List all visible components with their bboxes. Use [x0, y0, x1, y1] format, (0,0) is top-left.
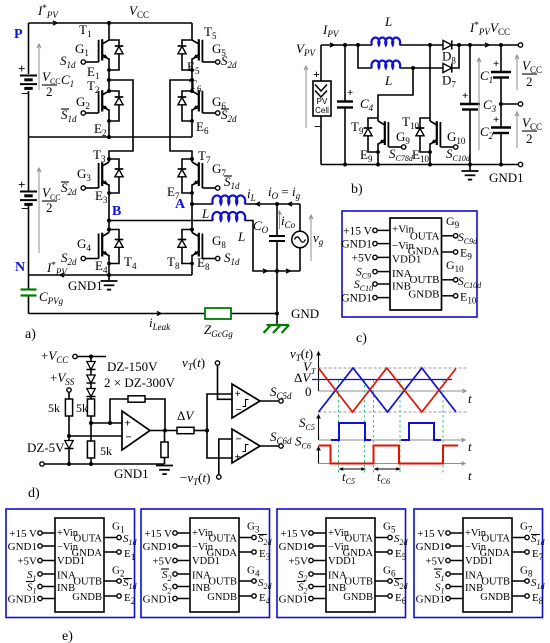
wire: T6 emitter to midpoint — [191, 121, 193, 137]
svg-text:OUTB: OUTB — [344, 577, 373, 588]
svg-text:tC6: tC6 — [377, 469, 390, 486]
svg-text:SC5: SC5 — [299, 415, 315, 432]
capacitor C4 — [337, 45, 374, 165]
svg-text:T5: T5 — [204, 24, 217, 41]
pin INB e-2 — [162, 582, 190, 596]
gate label G8/S1d — [212, 233, 240, 267]
svg-text:+15 V: +15 V — [343, 226, 373, 238]
pin +15V e-1 — [9, 528, 55, 540]
svg-text:S2d: S2d — [394, 577, 409, 591]
pin +5V e-3 — [288, 556, 326, 568]
svg-text:iL: iL — [247, 186, 256, 203]
svg-text:S1d: S1d — [60, 53, 76, 70]
svg-text:−: − — [236, 434, 242, 446]
pin GNDB e-2 — [239, 592, 271, 606]
svg-text:SC6d: SC6d — [270, 429, 292, 446]
wire: bypass E1 to T3 collector — [109, 80, 133, 159]
svg-text:GND1: GND1 — [341, 293, 372, 305]
svg-text:GNDA: GNDA — [480, 548, 511, 559]
svg-text:GND1: GND1 — [341, 239, 372, 251]
svg-text:2 × DZ-300V: 2 × DZ-300V — [104, 375, 175, 390]
label E3 — [95, 188, 108, 205]
gate label G2/S1d-bar — [61, 94, 90, 124]
svg-text:+: + — [18, 177, 25, 192]
pin INB e-4 — [435, 582, 463, 596]
wire: bridge bottom rail — [29, 273, 193, 277]
svg-text:SC10: SC10 — [354, 279, 373, 293]
output SC6d — [260, 429, 292, 448]
svg-text:GND1: GND1 — [143, 541, 172, 553]
label VT — [303, 359, 316, 376]
wire: -vT to comparator2 — [219, 439, 232, 475]
resistor 5k chain — [76, 399, 95, 423]
svg-text:Cell: Cell — [315, 106, 329, 115]
label 0 — [305, 384, 312, 399]
svg-text:T10: T10 — [402, 114, 419, 131]
svg-text:IPV: IPV — [322, 22, 340, 39]
transistor T1 — [79, 22, 123, 72]
svg-text:+5V: +5V — [17, 556, 37, 568]
PV cell — [313, 45, 331, 165]
dashed level -VT — [319, 411, 468, 413]
label E9 — [360, 147, 373, 164]
pin INB e-1 — [26, 582, 55, 596]
wire: bypass E5 to T7 collector — [170, 80, 192, 159]
label c) — [356, 331, 367, 346]
pin INA e-2 — [161, 569, 190, 583]
svg-text:S1d: S1d — [531, 533, 546, 547]
svg-text:S1d: S1d — [224, 250, 240, 267]
wire: d bottom rail — [40, 462, 165, 466]
pin OUTB e-1 — [104, 565, 138, 592]
svg-text:VCC: VCC — [522, 58, 542, 75]
svg-text:OUTA: OUTA — [410, 231, 440, 243]
svg-text:G10: G10 — [447, 129, 466, 146]
svg-text:GND1: GND1 — [489, 170, 524, 185]
wire: T3 emitter to node B — [108, 193, 110, 221]
label E5 — [187, 59, 200, 76]
pin GND1 e-4 — [416, 541, 463, 553]
pin INB e-3 — [297, 582, 326, 596]
svg-text:E8: E8 — [197, 255, 210, 272]
wire: DC midpoint rail — [29, 135, 193, 139]
wire: leakage path — [29, 312, 278, 316]
pin +15V e-2 — [144, 528, 190, 540]
node output top — [275, 202, 279, 206]
label VPV — [296, 41, 316, 128]
pulldown resistor — [161, 431, 168, 465]
wire: dV node to comparator2 — [207, 431, 232, 459]
svg-text:+15 V: +15 V — [9, 528, 37, 540]
svg-text:I*PV: I*PV — [469, 20, 491, 37]
svg-text:E9: E9 — [360, 147, 373, 164]
svg-text:+: + — [313, 67, 320, 81]
voltage arrow upper — [37, 44, 41, 90]
driver box e-3 — [277, 509, 406, 618]
wire: minus input — [69, 435, 122, 437]
svg-text:GNDA: GNDA — [72, 548, 103, 559]
svg-text:VCC: VCC — [522, 115, 542, 132]
svg-text:2: 2 — [526, 131, 533, 146]
svg-text:GNDA: GNDA — [343, 548, 374, 559]
transistor T5 — [178, 24, 220, 72]
label d) — [28, 486, 40, 501]
label t axis2 — [468, 439, 472, 454]
node VCC midpoint — [499, 102, 523, 106]
svg-text:E5: E5 — [187, 59, 200, 76]
gate label G5/S2d — [212, 41, 237, 70]
driver IC e-4 — [463, 518, 512, 612]
svg-text:S2d: S2d — [394, 533, 409, 547]
resistor 5k vss — [48, 399, 73, 438]
svg-text:e): e) — [62, 629, 73, 643]
pin +5V e-2 — [152, 556, 190, 568]
driver box e-4 — [414, 509, 543, 618]
pin GND1b e-4 — [416, 594, 463, 606]
wire: T2 emitter to midpoint — [108, 121, 110, 137]
svg-text:+15 V: +15 V — [417, 528, 445, 540]
transistor T2 — [81, 78, 123, 123]
svg-text:+: + — [462, 90, 468, 102]
svg-text:+15 V: +15 V — [280, 528, 308, 540]
label dV chart — [294, 370, 312, 385]
svg-text:tC5: tC5 — [342, 469, 355, 486]
gate label G4/S2d — [61, 236, 91, 267]
pin GNDB e-4 — [512, 592, 544, 606]
svg-text:GND1: GND1 — [8, 594, 37, 606]
pin OUTB e-4 — [512, 565, 546, 592]
node N — [15, 260, 25, 275]
wire: T10 collector riser — [429, 45, 431, 118]
driver IC U-c — [390, 218, 442, 310]
svg-text:VCC: VCC — [129, 3, 149, 20]
node A — [175, 197, 194, 212]
node P — [14, 27, 23, 42]
svg-text:5k: 5k — [100, 444, 112, 458]
svg-text:G9: G9 — [446, 214, 460, 230]
svg-text:SC10d: SC10d — [446, 146, 471, 163]
svg-text:GND1: GND1 — [68, 278, 103, 293]
label vT(t) chart — [290, 346, 313, 363]
pin +5V c — [351, 252, 390, 264]
driver IC e-3 — [326, 518, 375, 612]
waveform SC5 blue — [331, 423, 441, 440]
svg-text:GNDB: GNDB — [343, 592, 373, 603]
label iO = ig — [268, 184, 301, 201]
label E6 — [196, 119, 209, 136]
label GND — [291, 306, 319, 321]
inductor L b-upper — [371, 14, 400, 45]
pin GND1 c top — [341, 239, 390, 251]
wire: section a top VCC rail — [29, 21, 193, 25]
svg-text:D7: D7 — [442, 73, 456, 90]
pin GND1b e-2 — [143, 594, 190, 606]
svg-text:G2: G2 — [76, 94, 90, 111]
voltage arrow lower — [37, 168, 41, 253]
pin GNDA e-3 — [375, 548, 407, 562]
pin OUTB e-2 — [239, 565, 273, 592]
dashed level VT — [319, 367, 468, 369]
svg-text:t: t — [468, 439, 472, 454]
svg-text:OUTB: OUTB — [73, 577, 102, 588]
svg-text:+: + — [347, 87, 353, 99]
wire: vT to comparator1 — [218, 365, 233, 399]
pin GND1b e-1 — [8, 594, 55, 606]
driver IC e-1 — [55, 518, 104, 612]
label VCC top — [129, 3, 149, 20]
label 2xDZ-300V — [104, 375, 175, 390]
svg-text:GND1: GND1 — [279, 541, 308, 553]
svg-text:0: 0 — [305, 384, 312, 399]
svg-text:+: + — [18, 61, 25, 76]
pin GNDA c E9 — [442, 246, 473, 262]
terminal +VCC — [41, 348, 106, 365]
svg-text:S1d: S1d — [123, 577, 138, 591]
pin GNDA e-2 — [239, 548, 271, 562]
svg-text:OUTB: OUTB — [410, 274, 440, 286]
svg-text:C4: C4 — [360, 96, 374, 113]
svg-text:ΔV: ΔV — [177, 408, 195, 423]
pin +15V e-3 — [280, 528, 326, 540]
waveform SC6 red — [319, 446, 459, 464]
label E2 — [94, 121, 106, 138]
svg-text:S1d: S1d — [531, 577, 546, 591]
label t axis1 — [468, 391, 472, 406]
svg-text:C1: C1 — [480, 68, 493, 85]
impedance ZGcGg — [204, 308, 233, 339]
waveform carrier blue — [319, 368, 457, 412]
label t axis3 — [468, 468, 472, 483]
resistor dV — [177, 427, 209, 433]
svg-text:T7: T7 — [198, 148, 211, 165]
svg-text:+VCC: +VCC — [41, 348, 69, 365]
terminal +VSS — [50, 370, 75, 399]
svg-text:OUTA: OUTA — [209, 534, 238, 545]
driver box e-2 — [141, 509, 270, 618]
svg-text:E2: E2 — [124, 592, 135, 606]
svg-text:+: + — [235, 388, 241, 400]
label iCo — [278, 211, 296, 230]
svg-text:t: t — [468, 391, 472, 406]
label I*PV / VCC section b — [469, 20, 510, 37]
gate label G7/S1d-bar — [212, 161, 240, 191]
svg-text:+5V: +5V — [425, 556, 445, 568]
svg-text:b): b) — [351, 182, 363, 197]
pin GNDA e-4 — [512, 548, 544, 562]
transistor T8 — [167, 228, 220, 272]
wire: D7 riser — [452, 43, 461, 68]
svg-text:GND1: GND1 — [8, 541, 37, 553]
svg-text:S2d: S2d — [258, 533, 273, 547]
zener DZ-5V — [27, 436, 74, 466]
diode D7 — [442, 63, 456, 89]
svg-text:vg: vg — [313, 230, 324, 247]
label dV — [177, 408, 195, 423]
svg-text:G10: G10 — [446, 258, 464, 274]
svg-text:2: 2 — [46, 200, 53, 215]
svg-text:S2d: S2d — [61, 250, 77, 267]
svg-text:GND1: GND1 — [279, 594, 308, 606]
label a) — [25, 327, 36, 342]
label IPV — [322, 22, 340, 39]
pin +15V e-4 — [417, 528, 463, 540]
svg-text:SC6: SC6 — [295, 434, 311, 451]
label SC6 — [295, 434, 311, 451]
label vg — [309, 215, 324, 261]
driver box e-1 — [6, 509, 135, 618]
svg-text:G8: G8 — [212, 233, 226, 250]
pin GNDB e-3 — [375, 592, 407, 606]
svg-text:G4: G4 — [77, 236, 91, 253]
svg-text:5k: 5k — [76, 401, 88, 415]
svg-text:E10: E10 — [460, 290, 477, 306]
svg-text:B: B — [112, 204, 121, 219]
label e) — [62, 629, 73, 643]
svg-text:S2d: S2d — [221, 107, 237, 124]
svg-text:SC10d: SC10d — [458, 276, 482, 290]
svg-text:VPV: VPV — [296, 41, 316, 58]
diode D8 — [442, 40, 456, 65]
svg-text:L: L — [237, 229, 245, 244]
svg-text:+: + — [235, 452, 241, 464]
svg-text:GNDB: GNDB — [480, 592, 510, 603]
gate label G10/SC10d — [446, 129, 471, 163]
pin SC9 — [356, 267, 390, 281]
node B — [107, 204, 121, 223]
capacitor C3 — [460, 45, 497, 165]
label iLeak — [149, 315, 171, 332]
svg-text:E1: E1 — [124, 548, 135, 562]
svg-text:GNDB: GNDB — [207, 592, 237, 603]
svg-text:L: L — [384, 73, 392, 88]
svg-text:G1: G1 — [75, 41, 89, 58]
label VCC/2 lower — [42, 185, 61, 215]
wire: upper inductor to output node — [245, 202, 300, 206]
pin INA e-4 — [434, 569, 463, 583]
svg-text:E2: E2 — [94, 121, 106, 138]
pin GND1 e-2 — [143, 541, 190, 553]
svg-text:t: t — [468, 468, 472, 483]
svg-text:GNDA: GNDA — [408, 246, 440, 258]
svg-text:+5V: +5V — [152, 556, 172, 568]
resistor 5k lower — [87, 423, 112, 466]
battery VCC/2 upper — [18, 61, 37, 102]
wire: T9/T10 emitters to ground rail — [378, 152, 430, 165]
pin +5V e-1 — [17, 556, 55, 568]
label I*PV top — [37, 3, 59, 20]
wire: T7 emitter to node A — [191, 193, 193, 230]
svg-text:E3: E3 — [95, 188, 108, 205]
pin +5V e-4 — [425, 556, 463, 568]
label E10 — [412, 147, 429, 164]
pin GND1 c bottom — [341, 293, 390, 305]
gate label G9/SC78d — [389, 129, 414, 163]
svg-text:+: + — [125, 418, 131, 430]
capacitor C1 — [480, 45, 511, 104]
wire: coil1 to D8 — [400, 43, 443, 47]
svg-text:−: − — [21, 202, 29, 217]
pin GND1b e-3 — [279, 594, 326, 606]
svg-text:GND1: GND1 — [114, 466, 149, 481]
label DZ-150V — [107, 359, 158, 374]
op-amp U1 — [122, 411, 150, 450]
svg-text:P: P — [14, 27, 23, 42]
transistor T6 — [178, 77, 220, 123]
svg-text:I*PV: I*PV — [37, 3, 59, 20]
svg-text:+VSS: +VSS — [50, 370, 75, 387]
pin INA e-3 — [298, 569, 326, 583]
source vg — [292, 204, 308, 271]
wire: dV node to comparator1 — [207, 394, 232, 431]
dV level line (blue) — [312, 379, 452, 381]
svg-text:ZGcGg: ZGcGg — [204, 322, 233, 339]
transistor T7 — [178, 148, 220, 195]
svg-text:−: − — [21, 87, 29, 102]
wire: T1 emitter to T2 — [107, 70, 111, 93]
svg-text:SC5d: SC5d — [270, 384, 292, 401]
wire: section b input rail — [321, 43, 372, 47]
ground GND1 section a — [68, 275, 118, 293]
terminal -vT — [180, 470, 221, 487]
svg-text:GNDB: GNDB — [72, 592, 102, 603]
chart axis vT — [317, 352, 466, 393]
svg-text:GND1: GND1 — [416, 541, 445, 553]
label E8 — [197, 255, 210, 272]
svg-text:L: L — [201, 206, 209, 221]
svg-text:T8: T8 — [167, 254, 180, 271]
chart axis SC6 — [317, 447, 465, 465]
wire: T8 emitter to bottom rail — [191, 264, 193, 276]
svg-text:GND1: GND1 — [143, 594, 172, 606]
svg-text:S1d: S1d — [123, 533, 138, 547]
inductor L upper — [192, 195, 245, 221]
svg-text:T1: T1 — [79, 22, 91, 39]
svg-text:SC9d: SC9d — [458, 232, 478, 246]
transistor T3 — [81, 147, 123, 195]
dimension tC5 — [339, 467, 367, 486]
svg-text:d): d) — [28, 486, 40, 501]
svg-text:GNDB: GNDB — [408, 289, 439, 301]
svg-text:+: + — [493, 58, 499, 70]
wire: opamp output — [150, 429, 177, 433]
svg-text:C1: C1 — [61, 72, 74, 89]
wire: T5 collector — [191, 23, 193, 40]
capacitor C2 — [480, 104, 511, 165]
wire: T5 emitter to T6 — [190, 70, 194, 93]
green marker lines — [339, 380, 444, 474]
terminal vT — [182, 355, 220, 372]
label E1 — [87, 64, 99, 81]
pin OUTA e-1 — [104, 521, 138, 548]
pin +15V c — [343, 226, 390, 238]
inductor L b-lower — [358, 45, 400, 88]
pin OUTA e-2 — [239, 521, 273, 548]
svg-text:OUTA: OUTA — [345, 534, 374, 545]
dimension tC6 — [374, 467, 402, 486]
svg-text:ΔV: ΔV — [294, 370, 312, 385]
pin GND1 e-1 — [8, 541, 55, 553]
svg-text:OUTA: OUTA — [482, 534, 511, 545]
wire: left DC rail — [28, 23, 30, 314]
transistor T10 — [402, 114, 458, 154]
svg-text:N: N — [15, 260, 25, 275]
svg-text:+5V: +5V — [288, 556, 308, 568]
svg-text:5k: 5k — [48, 401, 60, 415]
svg-text:T4: T4 — [124, 254, 137, 271]
svg-text:CO: CO — [253, 218, 269, 235]
pin OUTB c G10 — [442, 258, 483, 290]
svg-text:L: L — [384, 14, 392, 29]
